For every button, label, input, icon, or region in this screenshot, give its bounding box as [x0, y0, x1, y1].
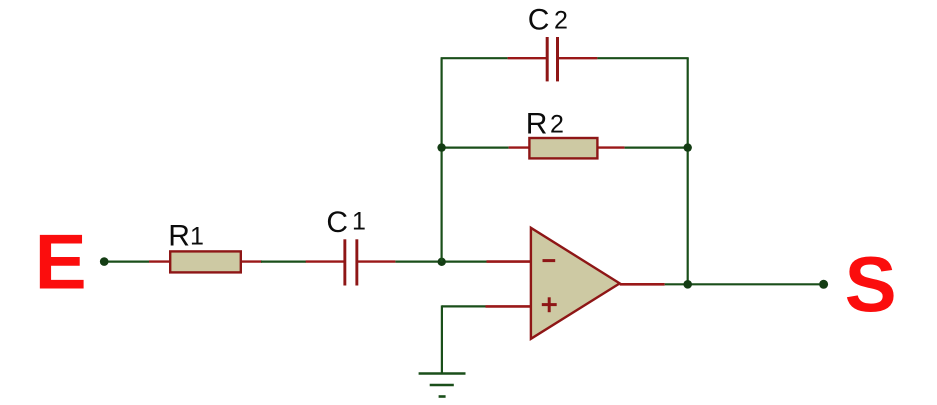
node C right feedback junction dot — [684, 143, 692, 151]
svg-text:1: 1 — [352, 207, 366, 235]
svg-text:R: R — [168, 220, 190, 253]
wire: red pin out of R2 right — [597, 146, 625, 148]
wire: red pin into R2 left — [509, 146, 530, 148]
wire: red pin into op-amp inverting input — [487, 260, 531, 263]
wire: green between R1 and C1 — [261, 261, 306, 263]
svg-text:E: E — [35, 217, 87, 305]
wire: red pin into C1 left plate — [306, 260, 344, 262]
svg-text:C: C — [528, 4, 550, 37]
svg-text:2: 2 — [554, 7, 568, 35]
wire: red pin out of C2 right plate — [559, 57, 597, 59]
wire: green junction node to op-amp pin — [442, 261, 487, 263]
wire: right feedback vertical drop — [687, 58, 689, 284]
node D output junction dot — [683, 280, 692, 289]
wire: red pin out of C1 right plate — [358, 260, 395, 262]
wire: green output to S terminal — [665, 283, 820, 285]
op-amp U1 — [531, 228, 620, 339]
svg-text:2: 2 — [550, 111, 564, 139]
resistor R1 — [170, 251, 241, 272]
capacitor C2 — [546, 37, 549, 81]
wire: red pin into op-amp non-inverting input — [486, 305, 531, 308]
op-amp minus symbol — [543, 259, 556, 262]
wire: left feedback vertical riser — [441, 58, 443, 261]
wire: red pin into C2 left plate — [508, 57, 546, 59]
wire: R2 line green right — [625, 147, 688, 149]
wire: input green E-dot to R1 pin — [104, 261, 149, 263]
wire: red pin from op-amp output — [620, 283, 665, 286]
wire: red pin into R1 left — [149, 260, 171, 262]
ground — [419, 372, 466, 375]
node S terminal dot — [819, 280, 828, 289]
wire: top rail green left of C2 — [441, 57, 508, 59]
wire: top rail green right of C2 — [597, 57, 688, 59]
svg-text:S: S — [845, 240, 897, 328]
wire: green non-inverting horizontal — [442, 305, 486, 307]
wire: R2 line green left — [442, 147, 509, 149]
wire: green vertical to ground — [441, 305, 443, 373]
wire: green C1 to junction node — [395, 261, 441, 263]
node A junction dot (inverting line) — [438, 258, 446, 266]
resistor R2 — [529, 138, 597, 158]
svg-text:1: 1 — [190, 223, 204, 251]
wire: red pin out of R1 right — [240, 260, 262, 262]
capacitor C1 — [343, 239, 346, 285]
svg-text:C: C — [326, 206, 348, 239]
node B left feedback junction dot — [437, 143, 445, 151]
svg-text:R: R — [526, 107, 548, 140]
op-amp plus symbol — [542, 303, 557, 306]
node E terminal dot — [100, 257, 109, 266]
